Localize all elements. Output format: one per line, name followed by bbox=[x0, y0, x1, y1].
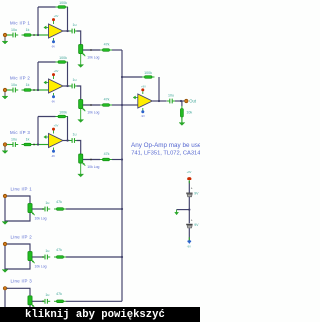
svg-text:47k: 47k bbox=[104, 152, 110, 156]
potentiometer 10k Log (line 2 level) bbox=[28, 252, 35, 264]
op-amp (mic preamp 2) bbox=[49, 79, 64, 93]
capacitor 10u (mic 3 input) bbox=[10, 137, 18, 147]
connector (line input 1) bbox=[3, 194, 8, 198]
svg-text:Mic I/P 2: Mic I/P 2 bbox=[10, 75, 30, 80]
wire (+9V rail to battery B1) bbox=[188, 180, 190, 193]
wire (mic 1 cap to level pot) bbox=[77, 31, 81, 45]
wire (line 3 input left/bottom) bbox=[5, 290, 30, 313]
label 10k Log (line 1 pot) bbox=[35, 216, 47, 220]
wire (line 3 pot wiper) bbox=[32, 300, 44, 302]
svg-text:Line I/P 1: Line I/P 1 bbox=[11, 186, 33, 191]
label 10k Log (mic 3 pot) bbox=[87, 165, 99, 169]
svg-text:1u: 1u bbox=[45, 201, 49, 205]
power V+ pin (mic 2 op-amp) bbox=[52, 69, 59, 79]
ground (mic 1 pot) bbox=[78, 65, 84, 68]
ground (below mic input 1) bbox=[2, 41, 8, 44]
svg-text:10u: 10u bbox=[11, 83, 17, 87]
node (mic 3 output/feedback junction) bbox=[66, 139, 68, 141]
svg-text:Line I/P 3: Line I/P 3 bbox=[11, 279, 33, 284]
ground (below mic input 3) bbox=[2, 151, 8, 154]
wire (mic 2 connector to ground) bbox=[4, 92, 6, 96]
wire (10k to ground) bbox=[181, 117, 183, 123]
svg-text:Line I/P 2: Line I/P 2 bbox=[11, 234, 33, 239]
power V- pin (mic 3 op-amp) bbox=[51, 148, 55, 158]
ground (line 3) bbox=[2, 314, 8, 317]
svg-text:10k Log: 10k Log bbox=[35, 264, 47, 268]
potentiometer 10k Log (mic 1 level) bbox=[79, 45, 86, 57]
svg-text:1k: 1k bbox=[26, 83, 30, 87]
svg-text:Out: Out bbox=[189, 99, 197, 104]
node (output junction) bbox=[180, 100, 182, 102]
op-amp (mic preamp 1) bbox=[49, 24, 64, 38]
node (mic 1 inverting input junction) bbox=[37, 34, 39, 36]
ground (output load) bbox=[179, 123, 185, 126]
capacitor 10u (mic 2 input) bbox=[10, 83, 18, 93]
wire (mic 2 pot wiper) bbox=[83, 104, 100, 106]
battery B1 9V bbox=[186, 187, 199, 197]
wire (battery B1 to midpoint) bbox=[188, 197, 190, 223]
svg-text:-9V: -9V bbox=[187, 245, 191, 249]
connector (mic input 1) bbox=[3, 33, 8, 37]
node (summing output/feedback junction) bbox=[158, 100, 160, 102]
battery B2 9V bbox=[186, 219, 199, 228]
svg-text:10k Log: 10k Log bbox=[87, 165, 99, 169]
power V+ pin (mic 3 op-amp) bbox=[52, 124, 59, 134]
ground (mic 1 op-amp non-inverting input) bbox=[44, 26, 49, 29]
wire (mic 3 pot to ground) bbox=[80, 163, 82, 174]
wire (line 2 input top) bbox=[7, 244, 30, 252]
svg-text:+9V: +9V bbox=[54, 69, 59, 73]
power rail -9V (arrow down) bbox=[187, 240, 191, 248]
wire (mic 1 feedback right vertical) bbox=[67, 7, 69, 31]
wire (line 1 input left/bottom) bbox=[5, 198, 30, 221]
wire (mic 1 pot to ground) bbox=[80, 54, 82, 65]
svg-text:1u: 1u bbox=[45, 293, 49, 297]
potentiometer 10k Log (mic 2 level) bbox=[79, 100, 86, 112]
wire (mic 2 op-amp output) bbox=[63, 85, 70, 87]
resistor 47k (line 1 mix) bbox=[54, 200, 66, 211]
connector Out bbox=[185, 99, 189, 103]
svg-text:47k: 47k bbox=[56, 200, 62, 204]
node (bus: line 1 join) bbox=[121, 208, 123, 210]
capacitor 1u (line 2) bbox=[42, 249, 50, 260]
label 10k Log (mic 1 pot) bbox=[87, 56, 99, 60]
svg-text:9V: 9V bbox=[194, 223, 199, 227]
svg-text:47k: 47k bbox=[104, 97, 110, 101]
node (mic 2 output/feedback junction) bbox=[66, 85, 68, 87]
label Line I/P 3 bbox=[11, 279, 33, 284]
resistor 10k (output load) bbox=[180, 106, 192, 120]
resistor 100k (mic 3 feedback) bbox=[56, 111, 69, 118]
wire (summing output) bbox=[152, 100, 166, 102]
wire (mic 3 pot wiper) bbox=[83, 159, 100, 161]
ground (mic 3 op-amp non-inverting input) bbox=[44, 135, 49, 138]
wire (output cap to out node) bbox=[175, 101, 184, 106]
svg-text:-9V: -9V bbox=[51, 99, 55, 103]
svg-text:1u: 1u bbox=[73, 78, 77, 82]
wire (mic 1 1k to op-amp) bbox=[33, 34, 48, 36]
svg-text:Mic I/P 3: Mic I/P 3 bbox=[10, 130, 30, 135]
resistor 47k (line 3 mix) bbox=[54, 292, 66, 303]
power V- pin (summing op-amp) bbox=[141, 108, 145, 118]
power rail +9V (arrow up) bbox=[187, 170, 192, 180]
svg-text:-9V: -9V bbox=[51, 154, 55, 158]
node (bus: summing input) bbox=[121, 104, 123, 106]
resistor 47k (mic 1 mix) bbox=[100, 42, 112, 51]
wire (mic 1 op-amp output) bbox=[63, 30, 70, 32]
wire (mic 2 47k to bus) bbox=[112, 104, 122, 106]
wire (line 3 input top) bbox=[7, 288, 30, 296]
node (mic 3 inverting input junction) bbox=[37, 143, 39, 145]
ground (mic 2 op-amp non-inverting input) bbox=[44, 81, 49, 84]
svg-text:1k: 1k bbox=[26, 138, 30, 142]
note (op-amp types line 1) bbox=[131, 142, 205, 149]
svg-text:1u: 1u bbox=[73, 133, 77, 137]
resistor 1k (mic 1 input) bbox=[22, 28, 34, 36]
wire (mic 3 input to cap) bbox=[7, 144, 11, 146]
wire (mic 2 cap to level pot) bbox=[77, 86, 81, 100]
wire (line 2 pot wiper) bbox=[32, 256, 44, 258]
wire (mic 3 op-amp output) bbox=[63, 140, 70, 142]
resistor 1k (mic 2 input) bbox=[22, 83, 34, 91]
wire (mic 3 feedback right vertical) bbox=[67, 117, 69, 141]
wire (midpoint ground lead) bbox=[176, 210, 178, 213]
wire (summing feedback top) bbox=[122, 76, 142, 78]
label Mic I/P 1 bbox=[10, 20, 30, 25]
svg-text:1u: 1u bbox=[73, 23, 77, 27]
svg-text:+9V: +9V bbox=[141, 85, 146, 89]
svg-text:47k: 47k bbox=[56, 248, 62, 252]
wire (midpoint to ground) bbox=[177, 209, 190, 211]
wire (battery B2 to -9V rail) bbox=[188, 228, 190, 240]
connector (mic input 2) bbox=[3, 88, 8, 92]
label Line I/P 1 bbox=[11, 186, 33, 191]
svg-text:+: + bbox=[191, 219, 193, 223]
svg-text:Any Op-Amp may be used: Any Op-Amp may be used bbox=[131, 142, 200, 149]
resistor 47k (mic 3 mix) bbox=[100, 152, 112, 161]
node (bus: mic 3 join) bbox=[121, 158, 123, 160]
svg-text:10u: 10u bbox=[11, 28, 17, 32]
capacitor 1u (line 3) bbox=[42, 293, 50, 304]
power V- pin (mic 1 op-amp) bbox=[51, 38, 55, 48]
wire (line 2 input left/bottom) bbox=[5, 246, 30, 269]
wire (line 1 47k to bus) bbox=[66, 208, 122, 210]
capacitor 10u (mic 1 input) bbox=[10, 28, 18, 38]
wire (mic 2 feedback left vertical) bbox=[37, 62, 39, 90]
label 10k Log (line 3 pot) bbox=[35, 309, 47, 313]
potentiometer 10k Log (line 1 level) bbox=[28, 204, 35, 216]
wire (mic 3 47k to bus) bbox=[112, 159, 122, 161]
connector (mic input 3) bbox=[3, 143, 8, 147]
node (bus: feedback tap) bbox=[121, 76, 123, 78]
node (mic 2 inverting input junction) bbox=[37, 89, 39, 91]
capacitor 10u (output) bbox=[167, 93, 175, 103]
power V- pin (mic 2 op-amp) bbox=[51, 93, 55, 103]
potentiometer 10k Log (line 3 level) bbox=[28, 296, 35, 308]
capacitor 1u (mic 3 output) bbox=[69, 133, 77, 143]
note (op-amp types line 2) bbox=[131, 150, 215, 156]
ground (mic 3 pot) bbox=[78, 174, 84, 177]
resistor 47k (line 2 mix) bbox=[54, 248, 66, 259]
wire (mic 3 cap to level pot) bbox=[77, 141, 81, 155]
wire (mic 2 feedback right vertical) bbox=[67, 62, 69, 86]
op-amp (summing amplifier) bbox=[138, 94, 153, 108]
svg-text:47k: 47k bbox=[104, 42, 110, 46]
wire (mic 1 feedback top) bbox=[38, 6, 56, 8]
wire (mic 2 pot to ground) bbox=[80, 109, 82, 120]
svg-text:10k Log: 10k Log bbox=[87, 111, 99, 115]
wire (mic 2 feedback top) bbox=[38, 61, 56, 63]
ground (battery midpoint) bbox=[175, 212, 179, 215]
caption bar: kliknij aby powiększyć bbox=[0, 307, 200, 322]
svg-text:100k: 100k bbox=[144, 71, 152, 75]
svg-text:47k: 47k bbox=[56, 292, 62, 296]
svg-text:-9V: -9V bbox=[51, 44, 55, 48]
potentiometer 10k Log (mic 3 level) bbox=[79, 154, 86, 166]
wire (mic 1 feedback left vertical) bbox=[37, 7, 39, 35]
wire (mic 2 1k to op-amp) bbox=[33, 89, 48, 91]
ground (summing op-amp non-inverting input) bbox=[133, 96, 138, 99]
wire (summing feedback right vertical) bbox=[158, 77, 160, 101]
wire (mic 1 47k to bus) bbox=[112, 49, 122, 51]
wire (mic 3 feedback left vertical) bbox=[37, 117, 39, 145]
label Mic I/P 2 bbox=[10, 75, 30, 80]
svg-text:100k: 100k bbox=[59, 56, 67, 60]
resistor 47k (mic 2 mix) bbox=[100, 97, 112, 106]
svg-text:10k Log: 10k Log bbox=[87, 56, 99, 60]
label Mic I/P 3 bbox=[10, 130, 30, 135]
wire (mic 3 feedback top) bbox=[38, 116, 56, 118]
ground (line 1) bbox=[2, 222, 8, 225]
svg-text:1u: 1u bbox=[45, 249, 49, 253]
svg-text:741, LF351, TL072, CA3140 etc.: 741, LF351, TL072, CA3140 etc. bbox=[131, 150, 200, 156]
svg-text:+9V: +9V bbox=[187, 170, 192, 174]
svg-text:100k: 100k bbox=[59, 1, 67, 5]
label Out bbox=[189, 99, 197, 104]
svg-text:-9V: -9V bbox=[141, 114, 145, 118]
power V+ pin (mic 1 op-amp) bbox=[52, 14, 59, 24]
wire (mic 1 pot wiper) bbox=[83, 49, 100, 51]
capacitor 1u (mic 1 output) bbox=[69, 23, 77, 33]
ground (mic 2 pot) bbox=[78, 120, 84, 123]
connector (line input 3) bbox=[3, 287, 8, 291]
label 10k Log (line 2 pot) bbox=[35, 264, 47, 268]
svg-text:Mic I/P 1: Mic I/P 1 bbox=[10, 20, 30, 25]
label 10k Log (mic 2 pot) bbox=[87, 111, 99, 115]
capacitor 1u (line 1) bbox=[42, 201, 50, 212]
svg-text:+9V: +9V bbox=[54, 124, 59, 128]
node (battery midpoint) bbox=[188, 209, 190, 211]
svg-text:1k: 1k bbox=[26, 28, 30, 32]
wire (virtual-earth mixing bus vertical) bbox=[121, 50, 123, 301]
resistor 100k (mic 1 feedback) bbox=[56, 1, 69, 8]
wire (mic 1 input to cap) bbox=[7, 34, 11, 36]
node (mic 1 output/feedback junction) bbox=[66, 30, 68, 32]
wire (line 2 47k to bus) bbox=[66, 256, 122, 258]
svg-text:10k Log: 10k Log bbox=[35, 216, 47, 220]
resistor 1k (mic 3 input) bbox=[22, 138, 34, 146]
label Line I/P 2 bbox=[11, 234, 33, 239]
wire (mic 3 connector to ground) bbox=[4, 147, 6, 151]
svg-text:9V: 9V bbox=[194, 192, 199, 196]
wire (line 3 47k to bus) bbox=[66, 300, 122, 302]
resistor 100k (mic 2 feedback) bbox=[56, 56, 69, 63]
connector (line input 2) bbox=[3, 242, 8, 246]
svg-text:10u: 10u bbox=[11, 137, 17, 141]
wire (line 1 pot wiper) bbox=[32, 208, 44, 210]
svg-text:10u: 10u bbox=[168, 93, 174, 97]
wire (mic 1 connector to ground) bbox=[4, 37, 6, 41]
wire (mic 3 1k to op-amp) bbox=[33, 144, 48, 146]
svg-text:+9V: +9V bbox=[54, 14, 59, 18]
power V+ pin (summing op-amp) bbox=[141, 85, 146, 94]
resistor 100k (summing feedback) bbox=[142, 71, 155, 78]
ground (below mic input 2) bbox=[2, 96, 8, 99]
svg-text:100k: 100k bbox=[59, 111, 67, 115]
capacitor 1u (mic 2 output) bbox=[69, 78, 77, 88]
op-amp (mic preamp 3) bbox=[49, 134, 64, 148]
svg-text:+: + bbox=[191, 187, 193, 191]
wire (mic 2 input to cap) bbox=[7, 89, 11, 91]
ground (line 2) bbox=[2, 270, 8, 273]
wire (line 1 input top) bbox=[7, 196, 30, 204]
wire (bus to summing op-amp input) bbox=[122, 104, 138, 106]
svg-text:10k: 10k bbox=[186, 110, 192, 114]
node (bus: line 2 join) bbox=[121, 256, 123, 258]
